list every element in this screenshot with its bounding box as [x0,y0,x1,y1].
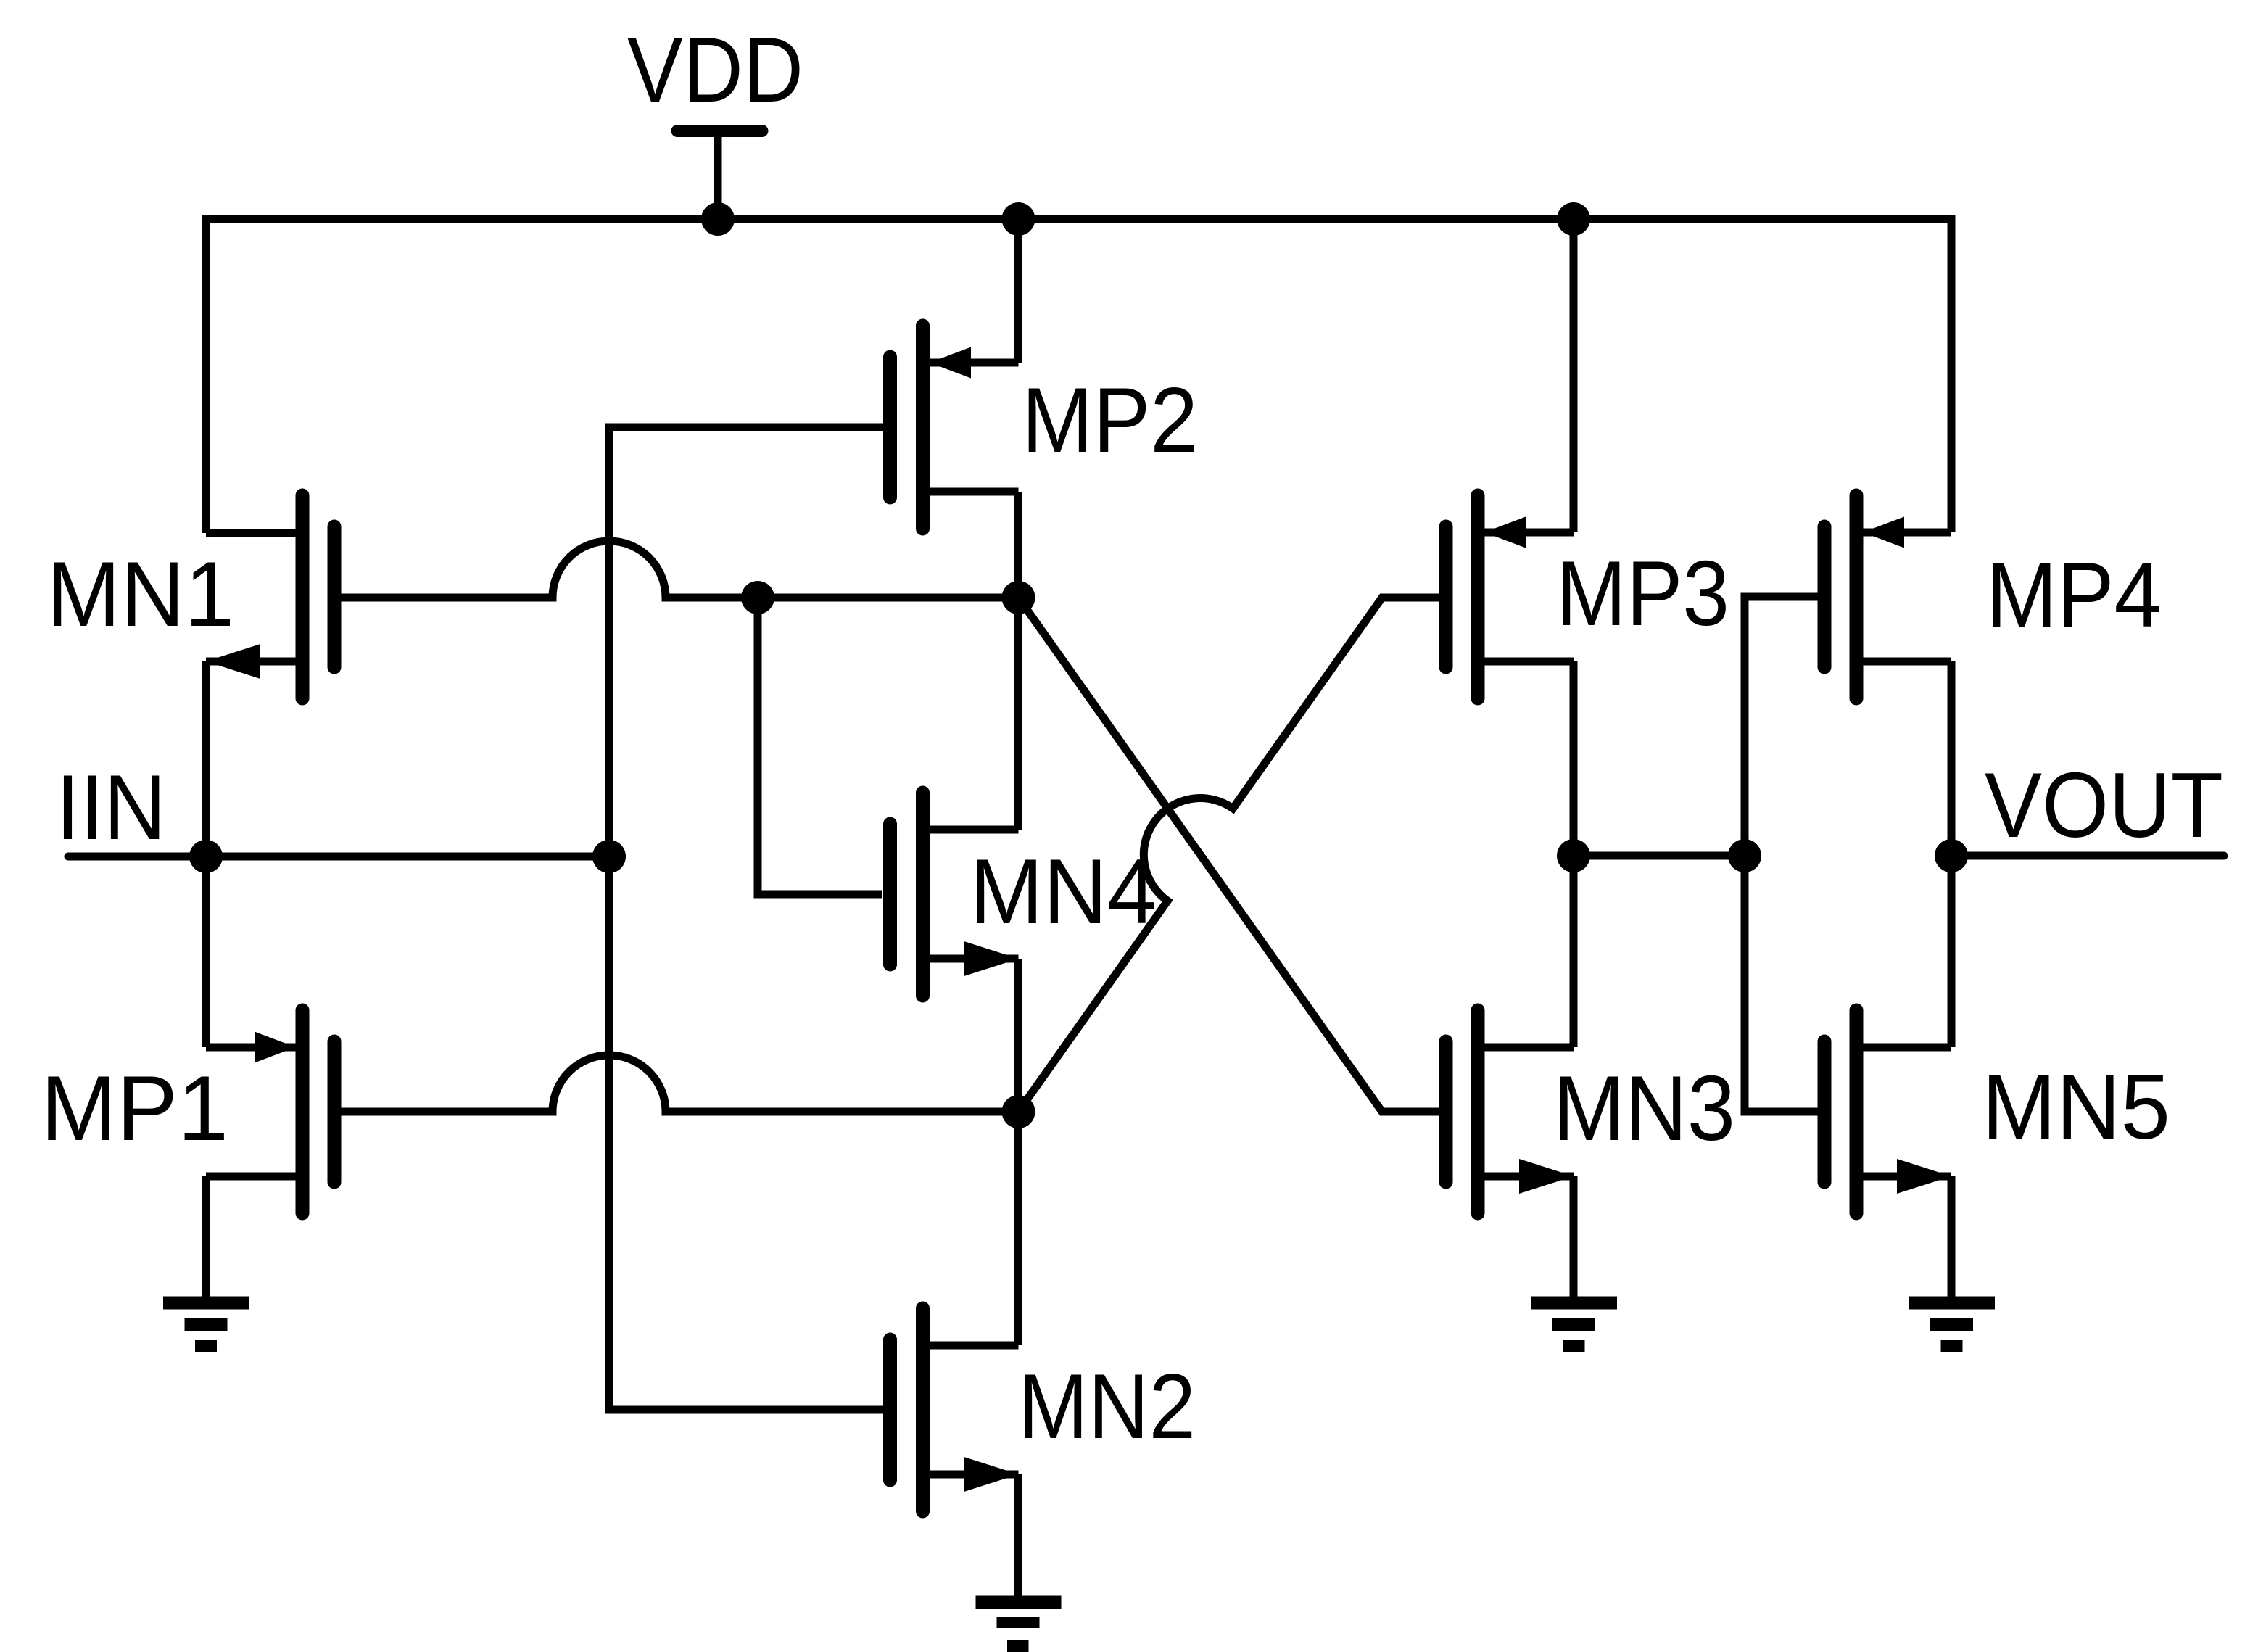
wire MP4 drain to VOUT node [1948,661,1956,1047]
node MN4 gate tap [741,581,774,614]
wire MN2 source to ground [1014,1474,1022,1597]
wire MP3 drain to VOUT row [1570,661,1578,1047]
node mid gate column junction [592,840,626,873]
svg-text:MP3: MP3 [1556,542,1729,645]
wire VDD rail [206,219,1951,533]
transistor MN2 [890,1308,1019,1511]
wire IIN to mid gate column [206,853,609,861]
wire MN1 source to IIN node [202,661,210,856]
wire diagonal A node A to MN3 gate [1019,598,1439,1112]
svg-text:MN2: MN2 [1018,1355,1196,1458]
wire MP1 gate to node B with hop [334,1055,1019,1112]
node A MP2 drain junction [1002,581,1035,614]
node VDD stem junction [701,202,735,236]
transistor MP4 [1824,495,1951,698]
wire MP1 top terminal to IIN node [202,856,210,1047]
wire MP2 source stem [1014,219,1022,363]
wire diagonal B node B to MP3 gate with hop [1019,598,1439,1112]
wire gate column IIN to MN2 gate [609,856,890,1410]
transistor MN1 [206,495,334,698]
svg-text:MP4: MP4 [1986,543,2162,646]
transistor MP1 [206,1010,334,1213]
transistor MN5 [1824,1010,1951,1213]
ground MN5 [1909,1297,1995,1352]
svg-text:MN4: MN4 [969,840,1157,943]
node MP3 source on rail [1557,202,1590,236]
ground MN2 [976,1596,1062,1652]
wire VOUT lead [1951,852,2224,860]
node IIN junction [189,840,223,873]
wire MN4 source to node B to MN2 drain [1014,959,1022,1345]
wire MP3 source stem [1570,219,1578,532]
svg-text:MP1: MP1 [41,1057,228,1160]
wire MP2 gate to gate column [609,427,890,856]
power VDD symbol [677,131,762,220]
wire MP4 gate to column [1745,597,1824,856]
svg-text:VDD: VDD [627,18,803,121]
wire MP4 gate column to MN5 gate [1745,856,1824,1112]
wire MN1 gate to node A with hop over mid gate column [334,541,1019,598]
wire MN5 source to ground [1948,1176,1956,1297]
wire MP1 bottom terminal to ground [202,1176,210,1297]
svg-text:MN1: MN1 [46,542,234,645]
wire VOUT row left segment [1574,852,1745,860]
wire IIN lead [68,853,206,861]
ground MN3 [1531,1297,1617,1352]
svg-text:MN5: MN5 [1982,1055,2170,1158]
node B junction [1002,1095,1035,1128]
wire MN4 gate vertical [758,598,882,894]
transistor MN3 [1446,1010,1574,1213]
transistor MN4 [890,793,1019,996]
node MP3 drain MN3 drain junction [1557,839,1590,872]
svg-text:MP2: MP2 [1022,368,1198,471]
node MP4 gate column junction [1728,839,1761,872]
svg-text:VOUT: VOUT [1985,753,2223,856]
svg-text:MN3: MN3 [1553,1057,1735,1160]
wire MP2 drain to node A to MN4 drain [1014,492,1022,830]
node VOUT junction [1935,839,1968,872]
svg-text:IIN: IIN [56,756,166,859]
transistor MP2 [890,326,1019,529]
wire MN3 source to ground [1570,1176,1578,1297]
transistor MP3 [1446,495,1574,698]
node MP2 source on rail [1002,202,1035,236]
ground MP1 [163,1297,249,1352]
wire MP4 source stem [1948,219,1956,532]
